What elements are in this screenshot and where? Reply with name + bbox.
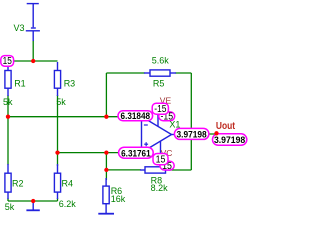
svg-text:-15: -15 — [154, 104, 167, 115]
wire R4 bottom — [57, 198, 59, 201]
wire ground row — [8, 200, 58, 202]
node battery/15 junction — [31, 59, 35, 63]
svg-text:R2: R2 — [12, 179, 24, 189]
ground under R2/R4 — [26, 201, 39, 210]
svg-text:Uout: Uout — [216, 121, 236, 132]
resistor R1 — [5, 63, 11, 96]
wire row B plus input — [58, 152, 142, 154]
wire output row — [177, 133, 217, 135]
node row B mid — [104, 150, 108, 154]
svg-text:3.97198: 3.97198 — [177, 130, 207, 141]
svg-text:R4: R4 — [62, 179, 74, 189]
node row B left — [55, 150, 59, 154]
wire R1 bottom to row A — [7, 95, 9, 117]
wire row B down to R8 row — [105, 153, 107, 170]
wire R8 row right — [170, 169, 192, 171]
svg-text:5k: 5k — [5, 202, 15, 212]
svg-text:R3: R3 — [64, 78, 76, 88]
svg-text:8.2k: 8.2k — [151, 183, 169, 193]
svg-text:15: 15 — [156, 155, 166, 166]
wire battery lead down — [32, 40, 34, 61]
wire R5 right — [175, 72, 191, 74]
resistor R4 — [54, 164, 60, 199]
voltage oval 6.31848 — [118, 111, 153, 122]
wire top node 15 row — [7, 60, 58, 62]
resistor R2 — [5, 164, 11, 199]
svg-text:6.31761: 6.31761 — [121, 148, 151, 159]
node row A left — [6, 115, 10, 119]
node ground — [31, 199, 35, 203]
svg-text:5k: 5k — [3, 97, 13, 107]
svg-text:V3: V3 — [14, 23, 25, 33]
voltage oval 3.97198 output — [174, 128, 209, 140]
node label oval 15 — [1, 56, 14, 67]
voltage oval 6.31761 — [119, 147, 154, 159]
voltage oval 3.97198 Uout — [213, 134, 247, 146]
resistor R8 — [140, 167, 171, 173]
svg-text:3.97198: 3.97198 — [214, 135, 245, 146]
svg-text:X1: X1 — [169, 120, 180, 130]
op-amp X1 — [142, 110, 179, 160]
wire R8 row left — [106, 169, 141, 171]
jumper oval 15 (VC supply) — [153, 154, 168, 166]
battery V3 — [26, 4, 40, 41]
wire feedback right vertical — [190, 73, 192, 170]
svg-text:5.6k: 5.6k — [152, 56, 170, 66]
voltage oval 15 lower (VC pin) — [160, 161, 174, 172]
wire R3 bottom to row B — [57, 95, 59, 153]
svg-text:R1: R1 — [14, 78, 26, 88]
jumper oval -15 (VE supply) — [152, 103, 168, 115]
svg-text:R5: R5 — [153, 79, 165, 89]
node R8 row — [104, 168, 108, 172]
resistor R3 — [54, 62, 60, 96]
svg-text:6.31848: 6.31848 — [121, 111, 151, 122]
voltage oval -15 lower (VE pin) — [159, 112, 175, 123]
wire R5 left — [106, 72, 145, 74]
ground under R6 — [98, 204, 114, 214]
svg-text:16k: 16k — [111, 194, 126, 204]
svg-text:6.2k: 6.2k — [59, 199, 77, 209]
resistor R5 — [144, 70, 176, 76]
wire row B to R4 — [57, 153, 59, 166]
svg-text:15: 15 — [3, 56, 13, 67]
wire R2 bottom — [7, 198, 9, 201]
wire R8 row to R6 — [105, 170, 107, 180]
svg-text:5k: 5k — [56, 97, 66, 107]
wire feedback left vertical — [105, 73, 107, 117]
node row A feedback — [104, 115, 108, 119]
node Uout pin dot — [214, 131, 218, 135]
resistor R6 — [103, 178, 109, 204]
wire row A minus input — [8, 116, 142, 118]
wire row A to R2 — [7, 117, 9, 165]
